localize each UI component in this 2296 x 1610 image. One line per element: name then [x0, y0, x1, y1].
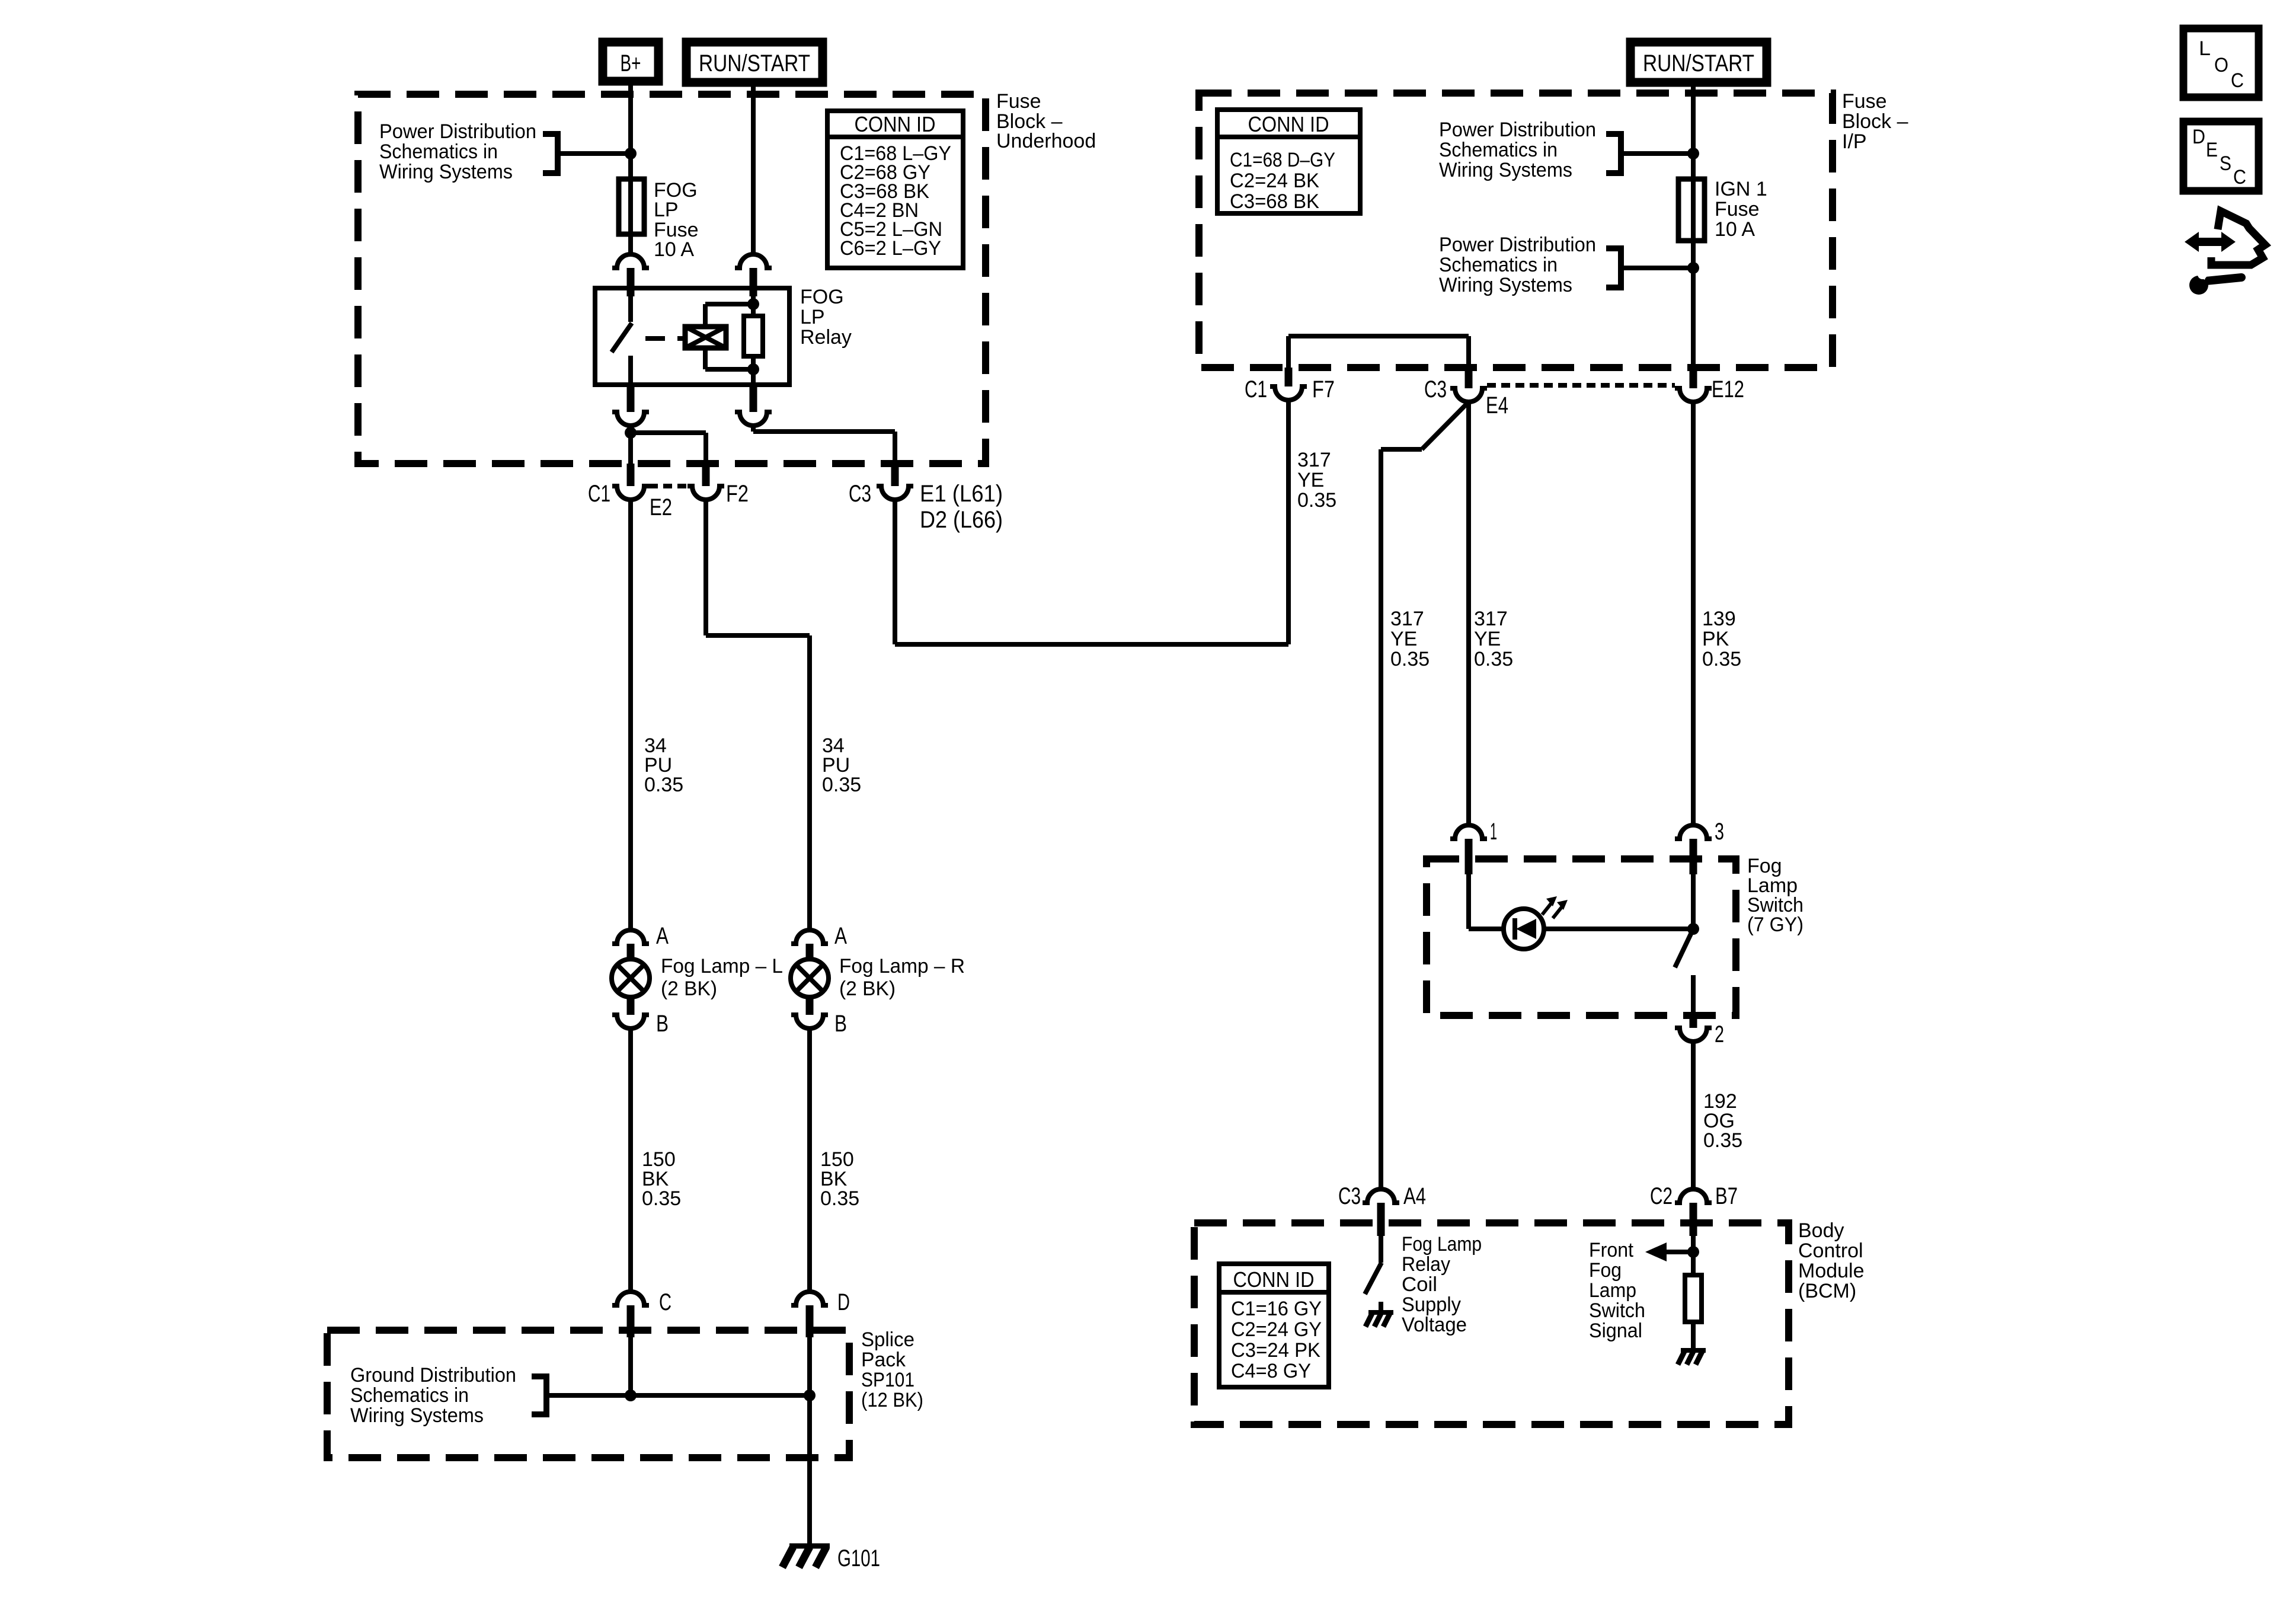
svg-text:D2 (L66): D2 (L66) — [920, 507, 1003, 533]
svg-text:0.35: 0.35 — [820, 1187, 859, 1210]
svg-text:C3=68 BK: C3=68 BK — [1230, 190, 1319, 213]
svg-text:Module: Module — [1798, 1260, 1865, 1282]
svg-text:10 A: 10 A — [1715, 218, 1755, 241]
svg-text:Wiring Systems: Wiring Systems — [1439, 274, 1572, 296]
svg-text:CONN ID: CONN ID — [1233, 1267, 1315, 1292]
svg-text:10 A: 10 A — [654, 238, 694, 261]
svg-text:Lamp: Lamp — [1589, 1279, 1636, 1302]
svg-text:E2: E2 — [650, 494, 672, 520]
svg-text:Power Distribution: Power Distribution — [1439, 119, 1596, 141]
svg-text:Ground Distribution: Ground Distribution — [350, 1364, 516, 1387]
svg-text:3: 3 — [1715, 819, 1724, 845]
svg-text:I/P: I/P — [1842, 130, 1867, 153]
svg-text:Pack: Pack — [861, 1349, 906, 1371]
svg-text:O: O — [2214, 54, 2228, 76]
svg-text:Schematics in: Schematics in — [379, 140, 498, 163]
svg-text:RUN/START: RUN/START — [1643, 50, 1754, 76]
svg-text:Wiring Systems: Wiring Systems — [379, 161, 513, 183]
svg-text:0.35: 0.35 — [1390, 648, 1430, 670]
svg-text:Fuse: Fuse — [996, 90, 1041, 113]
svg-text:FOG: FOG — [800, 286, 844, 308]
svg-text:C1=16 GY: C1=16 GY — [1231, 1298, 1322, 1320]
svg-text:CONN ID: CONN ID — [1248, 112, 1329, 136]
svg-text:A: A — [656, 923, 669, 949]
svg-text:(7 GY): (7 GY) — [1747, 913, 1803, 936]
svg-text:(2 BK): (2 BK) — [839, 977, 896, 1000]
svg-text:Fuse: Fuse — [1715, 198, 1760, 221]
svg-text:Underhood: Underhood — [996, 130, 1096, 152]
svg-text:C4=8 GY: C4=8 GY — [1231, 1360, 1311, 1382]
svg-text:D: D — [2192, 126, 2205, 148]
svg-text:E1 (L61): E1 (L61) — [920, 481, 1003, 507]
svg-text:Fog Lamp: Fog Lamp — [1402, 1233, 1482, 1256]
svg-text:317: 317 — [1297, 449, 1331, 471]
svg-text:E12: E12 — [1712, 376, 1744, 402]
svg-text:YE: YE — [1297, 469, 1324, 491]
svg-text:(BCM): (BCM) — [1798, 1280, 1856, 1302]
svg-text:Fog: Fog — [1589, 1259, 1622, 1282]
svg-text:Relay: Relay — [800, 326, 852, 349]
svg-text:0.35: 0.35 — [1297, 489, 1336, 512]
svg-text:A: A — [834, 923, 847, 949]
svg-text:Schematics in: Schematics in — [1439, 139, 1558, 161]
svg-text:Body: Body — [1798, 1219, 1844, 1242]
svg-text:C: C — [659, 1289, 671, 1315]
svg-text:B7: B7 — [1715, 1183, 1738, 1209]
svg-text:SP101: SP101 — [861, 1369, 914, 1391]
svg-text:C2: C2 — [1650, 1183, 1673, 1209]
svg-text:IGN 1: IGN 1 — [1715, 178, 1767, 200]
svg-text:(12 BK): (12 BK) — [861, 1389, 923, 1411]
svg-text:LP: LP — [654, 199, 679, 221]
svg-text:Schematics in: Schematics in — [350, 1384, 469, 1407]
svg-text:0.35: 0.35 — [1702, 648, 1741, 670]
svg-text:0.35: 0.35 — [822, 774, 861, 796]
svg-text:C1: C1 — [588, 481, 610, 507]
svg-text:C3: C3 — [1338, 1183, 1361, 1209]
svg-text:C1: C1 — [1245, 376, 1267, 402]
svg-text:Schematics in: Schematics in — [1439, 254, 1558, 276]
svg-text:C3: C3 — [1424, 376, 1447, 402]
svg-text:(2 BK): (2 BK) — [661, 977, 717, 1000]
svg-text:Fog Lamp – R: Fog Lamp – R — [839, 955, 965, 977]
svg-text:C: C — [2231, 69, 2244, 92]
svg-text:Fog Lamp – L: Fog Lamp – L — [661, 955, 783, 977]
svg-text:YE: YE — [1390, 628, 1417, 650]
svg-text:2: 2 — [1715, 1021, 1724, 1047]
svg-text:B: B — [834, 1011, 847, 1037]
svg-text:G101: G101 — [837, 1545, 880, 1571]
svg-text:Fuse: Fuse — [1842, 90, 1887, 113]
svg-text:C: C — [2233, 166, 2246, 189]
svg-text:E4: E4 — [1486, 392, 1508, 419]
svg-text:PK: PK — [1702, 628, 1729, 650]
svg-text:Switch: Switch — [1589, 1299, 1645, 1322]
svg-text:0.35: 0.35 — [1703, 1129, 1742, 1152]
svg-text:C3=24 PK: C3=24 PK — [1231, 1339, 1320, 1362]
svg-text:F7: F7 — [1312, 376, 1335, 402]
svg-text:A4: A4 — [1403, 1183, 1426, 1209]
svg-text:RUN/START: RUN/START — [699, 50, 810, 76]
svg-text:Relay: Relay — [1402, 1253, 1450, 1276]
svg-text:Supply: Supply — [1402, 1293, 1461, 1316]
svg-text:317: 317 — [1390, 608, 1424, 630]
svg-text:139: 139 — [1702, 608, 1736, 630]
svg-text:E: E — [2206, 139, 2218, 161]
svg-text:Wiring Systems: Wiring Systems — [1439, 159, 1572, 181]
svg-text:Power Distribution: Power Distribution — [1439, 234, 1596, 256]
svg-text:CONN ID: CONN ID — [855, 112, 936, 136]
svg-text:1: 1 — [1490, 819, 1497, 845]
svg-text:LP: LP — [800, 306, 825, 328]
svg-text:C1=68 D–GY: C1=68 D–GY — [1230, 149, 1335, 171]
svg-text:B: B — [656, 1011, 669, 1037]
svg-text:Signal: Signal — [1589, 1320, 1642, 1342]
svg-text:C3: C3 — [849, 481, 871, 507]
svg-text:S: S — [2220, 152, 2231, 175]
svg-text:D: D — [837, 1289, 850, 1315]
svg-text:0.35: 0.35 — [644, 774, 683, 796]
svg-text:C2=24 GY: C2=24 GY — [1231, 1318, 1322, 1341]
svg-text:YE: YE — [1474, 628, 1501, 650]
svg-text:Splice: Splice — [861, 1328, 914, 1351]
svg-text:L: L — [2199, 37, 2211, 60]
svg-text:Control: Control — [1798, 1240, 1863, 1262]
svg-text:0.35: 0.35 — [642, 1187, 681, 1210]
svg-text:F2: F2 — [726, 481, 749, 507]
svg-text:B+: B+ — [621, 50, 641, 76]
svg-text:317: 317 — [1474, 608, 1508, 630]
svg-text:C6=2 L–GY: C6=2 L–GY — [840, 237, 941, 260]
svg-text:Power Distribution: Power Distribution — [379, 120, 536, 143]
svg-text:Front: Front — [1589, 1239, 1634, 1261]
svg-text:Coil: Coil — [1402, 1273, 1437, 1296]
svg-text:Voltage: Voltage — [1402, 1314, 1467, 1336]
svg-text:C2=24 BK: C2=24 BK — [1230, 170, 1319, 192]
svg-text:0.35: 0.35 — [1474, 648, 1513, 670]
svg-text:Block –: Block – — [1842, 110, 1908, 133]
svg-text:Wiring Systems: Wiring Systems — [350, 1404, 484, 1427]
